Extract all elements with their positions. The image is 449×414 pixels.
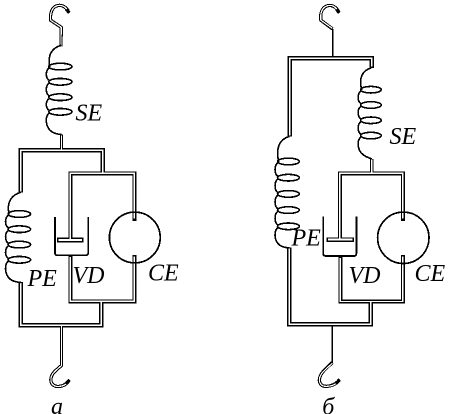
spring SE (model a) coil loops bbox=[49, 63, 72, 70]
spring SE (model b) backbone arcs bbox=[358, 91, 361, 135]
damper cup VD (model b) bbox=[323, 217, 356, 256]
spring SE (model b) exit bbox=[358, 136, 372, 159]
wire highlight top hook (model a) bbox=[51, 5, 68, 46]
spring PE (model b) exit bbox=[275, 227, 289, 248]
svg-text:VD: VD bbox=[73, 263, 105, 289]
hook tip (model a top) bbox=[66, 9, 69, 13]
highlight piston plate (model b) bbox=[328, 239, 353, 241]
wire bottom hook curl (model b) bbox=[319, 363, 339, 387]
hook tip (model a bottom) bbox=[66, 380, 70, 384]
spring SE (model a) entry bbox=[49, 45, 61, 67]
wire top bar + left branch + right vertical (model a) bbox=[21, 150, 103, 193]
wire highlight top hook curl (model b) bbox=[321, 5, 338, 28]
wire highlight inner top loop (model a) bbox=[70, 173, 134, 241]
wire white inner pass bbox=[21, 5, 403, 386]
wire highlight bottom hook curl (model b) bbox=[319, 363, 338, 386]
spring SE (model a) exit bbox=[46, 113, 61, 135]
wire left lower branch + bottom bar + mid stem (model b) bbox=[289, 248, 371, 325]
spring PE (model b) entry bbox=[278, 136, 290, 162]
spring PE (model a) entry bbox=[8, 192, 20, 214]
wire piston rod + inner top bar + circle top stub (model a) bbox=[70, 173, 134, 240]
wire spring SE to inner bar stem (model b) bbox=[370, 159, 373, 174]
wire highlight SE stem (model b) bbox=[371, 160, 373, 174]
svg-text:VD: VD bbox=[349, 263, 381, 289]
wire bottom stem + bottom hook (model a) bbox=[51, 325, 69, 386]
piston plate VD (model a) bbox=[57, 237, 84, 242]
hook stem single line (model b bottom) bbox=[331, 324, 333, 363]
circle CE (model b) bbox=[378, 212, 429, 263]
svg-text:PE: PE bbox=[291, 226, 322, 252]
piston plate VD (model b) bbox=[326, 237, 354, 242]
wire highlight bottom bar loop (model b) bbox=[289, 249, 371, 325]
svg-text:PE: PE bbox=[27, 266, 58, 292]
wire spring SE to top bar stem (model a) bbox=[60, 135, 63, 151]
wire bottom bar + left lower branch + mid stem (model a) bbox=[21, 282, 102, 325]
wire damper lower stem + inner bottom bar + circle bottom stub (model b) bbox=[340, 255, 402, 301]
hook tip (model b bottom) bbox=[336, 380, 340, 384]
wire highlight inner bottom loop (model b) bbox=[340, 257, 402, 302]
wire highlight bottom hook (model a) bbox=[51, 325, 68, 386]
circle CE (model a) bbox=[109, 212, 160, 263]
wire top bar + left vertical + right drop (model b) bbox=[290, 58, 372, 137]
svg-text:CE: CE bbox=[148, 261, 179, 287]
hook stem single line (model b top) bbox=[332, 29, 334, 57]
wire hook stem + top hook (model a) bbox=[51, 5, 69, 46]
spring PE (model a) exit bbox=[5, 261, 20, 283]
wire damper lower stem + inner bottom bar + circle bottom stub (model a) bbox=[70, 255, 134, 301]
spring PE (model b) coil loops bbox=[278, 158, 300, 165]
hook tip (model b top) bbox=[337, 9, 340, 13]
wire highlight bottom bar loop (model a) bbox=[21, 283, 102, 325]
wire highlight top bar loop (model b) bbox=[290, 58, 372, 135]
spring SE (model b) entry bbox=[361, 68, 372, 90]
spring PE (model a) backbone arcs bbox=[6, 215, 9, 259]
damper cup VD (model a) bbox=[55, 217, 88, 255]
highlight piston plate (model a) bbox=[59, 239, 83, 241]
wire highlight inner top loop (model b) bbox=[340, 173, 403, 240]
wire piston rod + inner top bar + circle top stub (model b) bbox=[340, 173, 403, 240]
svg-text:а: а bbox=[51, 394, 63, 414]
wire highlight inner bottom loop (model a) bbox=[70, 257, 134, 302]
wire highlight spring stem (model a) bbox=[61, 135, 63, 150]
wire top hook curl (model b) bbox=[321, 5, 339, 28]
svg-text:SE: SE bbox=[76, 101, 103, 127]
spring PE (model b) backbone arcs bbox=[275, 163, 278, 226]
svg-text:б: б bbox=[322, 394, 335, 414]
svg-text:CE: CE bbox=[415, 261, 446, 287]
spring SE (model a) backbone arcs bbox=[46, 68, 49, 111]
svg-text:SE: SE bbox=[390, 124, 417, 150]
wire highlight top bar loop (model a) bbox=[21, 150, 103, 191]
wire black pass bbox=[21, 5, 403, 386]
spring PE (model a) coil loops bbox=[8, 211, 31, 218]
spring SE (model b) coil loops bbox=[361, 86, 382, 93]
